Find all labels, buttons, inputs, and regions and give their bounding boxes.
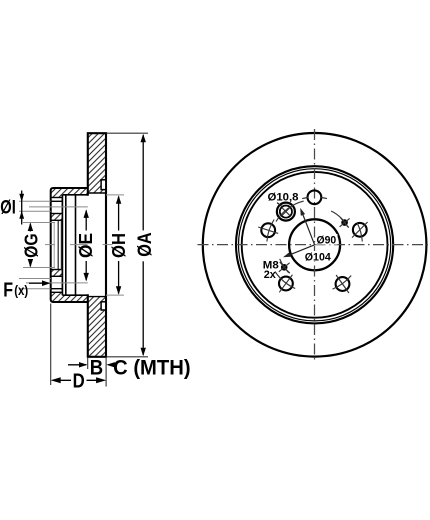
wheel bolt hole (left)	[261, 223, 275, 237]
label O90	[316, 234, 338, 245]
dimension OH	[106, 194, 124, 196]
ring right-face notch bottom	[101, 302, 106, 310]
svg-text:ØI: ØI	[0, 197, 16, 218]
hatch: hub flange block above bottom stud hole	[51, 270, 63, 277]
dimension OA	[107, 132, 149, 134]
hatch: hub flange bottom block	[51, 292, 63, 302]
centre bore edges	[51, 219, 63, 221]
front view: friction band inner edge circles	[236, 166, 393, 323]
section centre marks	[45, 244, 55, 246]
wheel bolt hole (lower-left)	[279, 277, 293, 291]
wheel bolt hole (right)	[353, 223, 367, 237]
svg-text:(x): (x)	[14, 283, 28, 298]
svg-text:2x: 2x	[264, 269, 277, 281]
dimension D	[53, 379, 72, 381]
M8 threaded hole (upper right)	[341, 219, 348, 226]
label O104	[304, 251, 332, 262]
horizontal centreline	[198, 244, 430, 246]
dimension OE	[85, 211, 87, 231]
svg-text:F: F	[3, 279, 13, 301]
dimension B	[68, 364, 86, 366]
dimension OG	[23, 222, 55, 224]
stud hole edges (top)	[51, 197, 63, 199]
leader for O10,8	[277, 203, 282, 207]
dimension OI arrows	[21, 191, 23, 225]
ring right-face notch top	[101, 180, 106, 190]
radius arrow to O90 circle	[303, 214, 315, 245]
wheel bolt hole (top)	[308, 190, 322, 204]
hub flange inner face	[61, 195, 63, 295]
front view: outer circle	[203, 133, 427, 357]
svg-text:ØH: ØH	[109, 233, 129, 258]
stud hole feature lines (grey) bottom	[19, 278, 51, 280]
hole O10,8 (double circle)	[277, 203, 295, 221]
hatch: disc ring bottom section	[88, 297, 106, 357]
svg-text:ØE: ØE	[76, 233, 96, 258]
M8 threaded hole (lower left)	[281, 264, 288, 271]
vertical centreline	[314, 129, 316, 361]
svg-text:ØG: ØG	[22, 233, 42, 258]
hatch: hat drum bottom wall	[62, 295, 87, 302]
stud hole feature lines (grey) top	[19, 200, 51, 202]
stud hole edges (bottom)	[51, 275, 63, 277]
svg-text:Ø10,8: Ø10,8	[268, 191, 299, 203]
svg-text:C (MTH): C (MTH)	[113, 357, 191, 380]
radius arrow to O104 circle	[290, 245, 315, 255]
hub pilot silhouette lines	[65, 195, 67, 295]
hat outer contour	[51, 188, 88, 302]
svg-text:ØA: ØA	[134, 232, 156, 256]
disc ring outline	[88, 133, 106, 357]
hatch: disc ring top section	[88, 133, 106, 193]
svg-text:D: D	[73, 369, 85, 392]
hat drum inner edges	[62, 194, 87, 196]
front view: centre bore circle	[289, 219, 340, 270]
bore chamfer lines seen behind	[53, 223, 55, 268]
svg-text:Ø90: Ø90	[317, 234, 337, 246]
hatch: hub flange block below top stud hole	[51, 214, 63, 221]
ring hatch boundary lines	[88, 192, 106, 194]
wheel bolt hole (lower-right)	[336, 277, 350, 291]
hatch: hub flange top block	[51, 188, 63, 198]
svg-text:B: B	[90, 355, 103, 379]
hatch: hat drum top wall	[62, 188, 87, 195]
svg-text:Ø104: Ø104	[305, 252, 332, 264]
extension lines bottom	[50, 304, 52, 386]
